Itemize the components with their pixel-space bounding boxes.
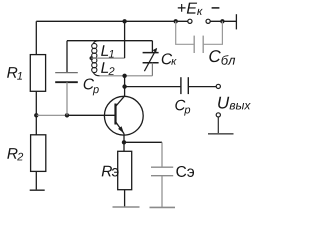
wire Re top <box>123 142 125 151</box>
wire supply riser from top rail to tap <box>124 21 126 58</box>
node dot tap between L1 and L2 <box>90 56 94 60</box>
resistor Re <box>118 151 132 189</box>
inductor L1 <box>92 41 99 59</box>
wire top supply rail right segment <box>210 20 236 22</box>
wire R1 bottom to base rail <box>35 91 37 115</box>
node dot output tap on collector <box>122 84 126 88</box>
wire top supply rail left segment <box>36 20 188 22</box>
transistor base bar <box>114 104 116 125</box>
terminal end bar of supply rail <box>235 14 237 29</box>
label +Ек <box>178 3 203 15</box>
wire left column from rail to R1 <box>35 21 37 54</box>
wire emitter to Ce corner <box>124 141 162 143</box>
wire R2 top <box>35 115 37 135</box>
terminal circle plus supply <box>188 19 192 23</box>
label Ср coupling base <box>84 78 99 95</box>
capacitor Cbl left plate <box>193 36 195 53</box>
ground R2 <box>30 189 45 191</box>
inductor L2 <box>92 58 100 76</box>
capacitor Ce top plate <box>151 166 173 168</box>
label Сэ <box>176 166 194 177</box>
node dot Cbl right on rail <box>220 19 224 23</box>
label Ср output <box>175 100 190 116</box>
wire Cbl left riser gray <box>176 21 195 44</box>
resistor R1 <box>30 55 45 92</box>
capacitor Ck top plate <box>143 52 159 54</box>
wire output ground stub <box>217 117 219 134</box>
label Uвых <box>218 97 251 110</box>
node dot Cp base <box>65 113 69 117</box>
wire Ce lower gray <box>161 176 163 208</box>
wire emitter riser to node <box>123 134 125 143</box>
transistor emitter lead with arrow <box>116 122 125 134</box>
label L2 <box>101 62 114 75</box>
variable capacitor arrow of Ck <box>144 48 157 71</box>
capacitor Cp output right plate <box>187 77 189 94</box>
wire output to coupling cap <box>125 86 181 88</box>
wire Cp upper riser <box>66 41 68 73</box>
node dot supply riser on top rail <box>122 19 126 23</box>
wire R2 bottom <box>35 171 37 190</box>
ground Ce <box>150 206 176 208</box>
ground Re <box>113 206 140 208</box>
wire tank loop bottom gray <box>100 75 153 77</box>
transistor VT circle <box>104 96 143 135</box>
capacitor Cp bottom plate <box>55 81 78 83</box>
wire Cp lower riser gray <box>66 82 68 115</box>
wire base rail gray segment <box>36 114 67 116</box>
wire tap to supply riser gray <box>91 57 124 59</box>
wire base rail black segment to transistor base <box>67 114 115 116</box>
label L1 <box>101 45 114 57</box>
wire Ck lower riser gray <box>151 63 153 76</box>
resistor R2 <box>31 135 46 172</box>
label R2 <box>7 148 23 160</box>
wire tank loop top rail <box>67 40 152 42</box>
node dot Cbl left on rail <box>174 19 178 23</box>
terminal circle output <box>216 84 220 88</box>
wire Cbl right riser gray <box>203 21 222 44</box>
label Ск <box>162 53 177 64</box>
node dot collector on tank bottom <box>122 74 126 78</box>
transistor collector lead <box>116 96 125 106</box>
wire collector riser <box>124 76 126 97</box>
label minus of supply <box>212 7 220 9</box>
terminal circle output ground <box>216 113 220 117</box>
label Rэ <box>102 166 119 177</box>
capacitor Cp top plate <box>55 72 78 74</box>
wire Re bottom <box>124 190 126 207</box>
wire Ce riser gray <box>161 142 163 167</box>
capacitor Ck bottom plate <box>143 62 159 64</box>
terminal circle minus supply <box>206 19 210 23</box>
wire Ck upper riser <box>151 41 153 53</box>
capacitor Cbl right plate <box>202 36 204 53</box>
node dot R1 R2 base <box>34 113 38 117</box>
capacitor Ce bottom plate <box>151 175 173 177</box>
label R1 <box>7 67 22 79</box>
capacitor Cp output left plate <box>180 77 182 94</box>
node dot emitter <box>122 140 126 144</box>
wire coupling cap to output terminal <box>188 86 216 88</box>
ground output <box>208 133 234 135</box>
label Сбл <box>209 50 235 65</box>
